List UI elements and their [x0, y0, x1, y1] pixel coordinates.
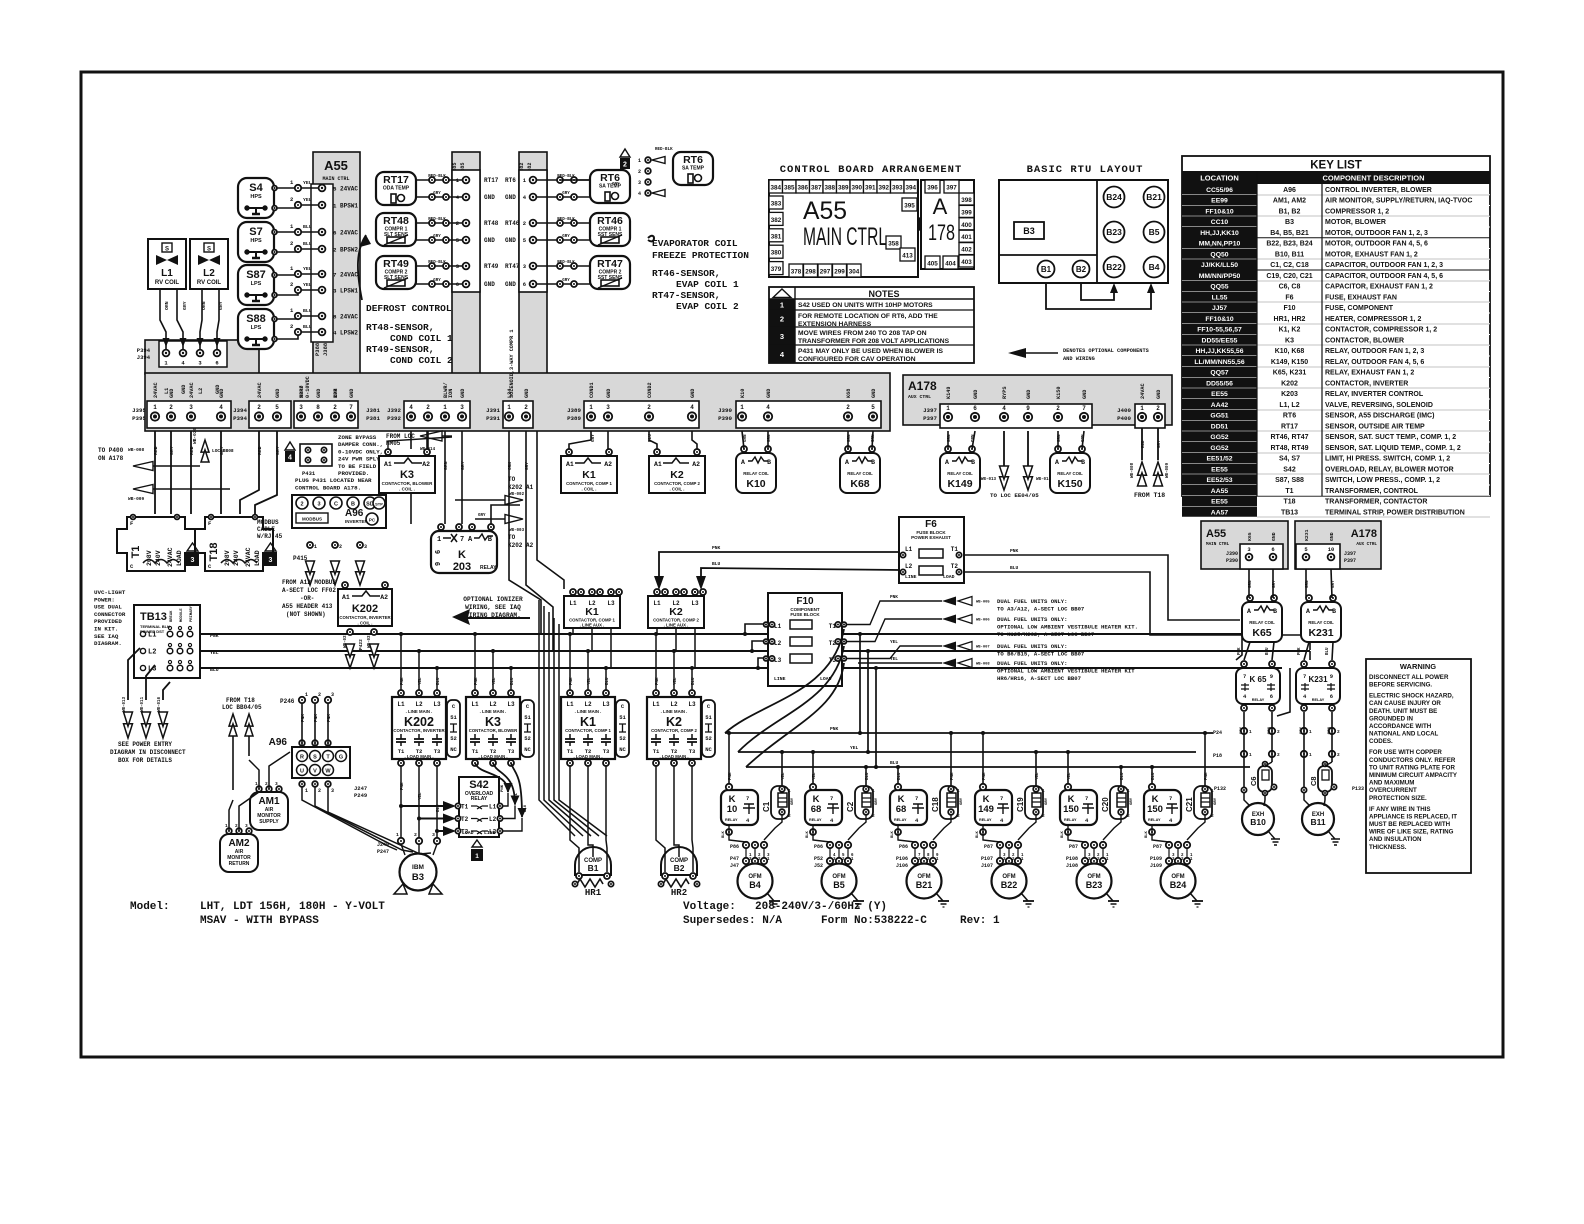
svg-text:GND: GND — [1329, 532, 1335, 541]
svg-text:387: 387 — [811, 185, 822, 192]
svg-text:K231: K231 — [1304, 529, 1310, 541]
svg-text:. COIL .: . COIL . — [670, 487, 685, 492]
svg-text:DISCONNECT ALL POWER: DISCONNECT ALL POWER — [1369, 674, 1449, 681]
svg-text:NC: NC — [524, 746, 531, 753]
svg-text:P86: P86 — [814, 844, 823, 850]
svg-text:B1, B2: B1, B2 — [1279, 208, 1301, 215]
svg-text:2: 2 — [290, 196, 293, 203]
svg-text:SENSOR, SAT. LIQUID TEMP., COM: SENSOR, SAT. LIQUID TEMP., COMP. 1, 2 — [1325, 445, 1461, 452]
svg-text:RED-BLK: RED-BLK — [655, 148, 673, 152]
svg-text:IN KIT.: IN KIT. — [94, 626, 118, 633]
svg-text:402: 402 — [961, 247, 972, 254]
svg-text:1: 1 — [255, 781, 258, 787]
svg-text:L3: L3 — [602, 701, 610, 708]
svg-text:A2: A2 — [604, 461, 612, 468]
svg-text:SA TEMP: SA TEMP — [682, 166, 705, 172]
svg-text:1: 1 — [788, 788, 791, 794]
svg-text:398: 398 — [961, 197, 972, 204]
svg-text:RPM: RPM — [333, 389, 339, 398]
svg-text:ION: ION — [448, 389, 454, 398]
svg-text:P397: P397 — [923, 415, 937, 422]
svg-text:380: 380 — [771, 250, 782, 257]
svg-text:C2: C2 — [846, 801, 855, 812]
svg-text:B4: B4 — [1149, 262, 1160, 272]
svg-text:LPS: LPS — [251, 325, 262, 331]
svg-text:. LINE MAIN .: . LINE MAIN . — [575, 709, 602, 714]
svg-text:S42: S42 — [1283, 466, 1296, 473]
svg-text:J394: J394 — [137, 354, 151, 361]
svg-text:P431: P431 — [302, 470, 316, 477]
svg-text:2: 2 — [1337, 752, 1340, 758]
svg-text:LOAD: LOAD — [462, 830, 474, 836]
svg-text:L2: L2 — [198, 388, 204, 394]
svg-text:1: 1 — [1042, 788, 1045, 794]
svg-text:POWER:: POWER: — [94, 596, 115, 603]
svg-text:2: 2 — [318, 788, 321, 794]
svg-text:LPSW1: LPSW1 — [340, 288, 358, 295]
svg-text:C1: C1 — [762, 801, 771, 812]
svg-text:FOR REMOTE LOCATION OF RT6, AD: FOR REMOTE LOCATION OF RT6, ADD THE — [798, 313, 938, 320]
svg-text:RELAY: RELAY — [725, 818, 738, 822]
svg-text:DUAL FUEL UNITS ONLY:: DUAL FUEL UNITS ONLY: — [997, 598, 1068, 605]
svg-text:W: W — [325, 769, 331, 775]
svg-text:24V PWR SPLY: 24V PWR SPLY — [338, 456, 380, 463]
svg-text:YEL: YEL — [493, 677, 497, 685]
svg-text:378: 378 — [791, 269, 802, 276]
svg-text:10: 10 — [727, 804, 738, 815]
svg-text:304: 304 — [849, 269, 860, 276]
svg-text:383: 383 — [771, 201, 782, 208]
svg-text:RT48: RT48 — [383, 215, 409, 227]
svg-text:F: F — [130, 520, 133, 527]
svg-text:RT47-SENSOR,: RT47-SENSOR, — [652, 290, 720, 301]
svg-text:51: 51 — [619, 714, 626, 721]
svg-text:COMPRESSOR 1, 2: COMPRESSOR 1, 2 — [1325, 208, 1389, 215]
svg-text:WB-002: WB-002 — [509, 493, 525, 497]
svg-text:5: 5 — [871, 404, 875, 411]
svg-text:WB-008: WB-008 — [128, 447, 145, 453]
svg-text:K149: K149 — [947, 478, 972, 490]
svg-text:B2: B2 — [674, 863, 685, 873]
svg-text:L2: L2 — [670, 701, 678, 708]
svg-text:GND: GND — [871, 389, 877, 398]
svg-text:1: 1 — [1249, 752, 1252, 758]
svg-text:T2: T2 — [951, 563, 959, 570]
svg-text:7: 7 — [915, 795, 918, 802]
svg-text:1: 1 — [780, 301, 784, 310]
svg-text:RT6: RT6 — [505, 177, 516, 184]
svg-text:3: 3 — [364, 544, 367, 550]
svg-text:2: 2 — [414, 832, 417, 838]
svg-text:7: 7 — [1085, 795, 1088, 802]
svg-text:S: S — [165, 247, 169, 253]
svg-text:L2: L2 — [489, 701, 497, 708]
svg-text:RELAY: RELAY — [809, 818, 822, 822]
svg-text:BLU: BLU — [210, 667, 219, 673]
svg-text:. LINE AUX .: . LINE AUX . — [580, 623, 605, 628]
svg-text:RELAY COIL: RELAY COIL — [1308, 620, 1334, 625]
svg-text:PNK: PNK — [314, 714, 319, 722]
svg-text:L1: L1 — [489, 804, 497, 811]
svg-text:3: 3 — [331, 788, 334, 794]
svg-text:GND: GND — [484, 237, 495, 244]
svg-text:HH,JJ,KK55,56: HH,JJ,KK55,56 — [1196, 348, 1244, 355]
svg-text:WB-013: WB-013 — [981, 478, 997, 482]
svg-text:C19, C20, C21: C19, C20, C21 — [1266, 273, 1312, 280]
svg-text:B: B — [1081, 459, 1085, 466]
svg-text:L1: L1 — [652, 701, 660, 708]
svg-text:P106: P106 — [896, 856, 908, 862]
svg-text:EVAPORATOR COIL: EVAPORATOR COIL — [652, 238, 738, 249]
svg-text:YEL: YEL — [850, 745, 859, 751]
svg-text:WB-032: WB-032 — [368, 632, 372, 648]
svg-text:3: 3 — [275, 781, 278, 787]
svg-text:3: 3 — [331, 692, 334, 698]
svg-text:A-SECT LOC FF02: A-SECT LOC FF02 — [282, 587, 336, 594]
svg-text:51: 51 — [705, 714, 712, 721]
svg-text:B21: B21 — [1146, 192, 1162, 202]
svg-text:MAIN CTRL: MAIN CTRL — [803, 223, 887, 251]
svg-text:TO UNIT RATING PLATE FOR: TO UNIT RATING PLATE FOR — [1369, 764, 1455, 771]
svg-text:T3: T3 — [603, 748, 610, 755]
svg-text:GND: GND — [275, 389, 281, 398]
svg-text:RT49: RT49 — [484, 263, 499, 270]
svg-text:ACCORDANCE WITH: ACCORDANCE WITH — [1369, 723, 1432, 730]
svg-text:. COIL .: . COIL . — [399, 487, 415, 492]
svg-text:C18: C18 — [931, 797, 940, 812]
svg-text:PROVIDED: PROVIDED — [94, 618, 122, 625]
svg-text:PNK: PNK — [830, 726, 839, 732]
svg-text:J381: J381 — [366, 407, 380, 414]
svg-text:1: 1 — [305, 788, 308, 794]
svg-text:240V: 240V — [155, 550, 162, 566]
svg-text:GND: GND — [690, 389, 696, 398]
svg-text:RT46, RT47: RT46, RT47 — [1270, 434, 1308, 441]
svg-text:RED-BLK: RED-BLK — [428, 261, 446, 265]
svg-text:TO B6/B15, A-SECT LOC BB07: TO B6/B15, A-SECT LOC BB07 — [997, 650, 1084, 657]
svg-text:ORN: ORN — [1328, 726, 1332, 734]
svg-text:J394: J394 — [233, 407, 247, 414]
svg-text:2: 2 — [846, 404, 850, 411]
svg-text:L1: L1 — [905, 546, 913, 553]
svg-text:BLK: BLK — [1145, 830, 1149, 838]
svg-text:24VAC: 24VAC — [245, 547, 252, 567]
svg-text:YEL: YEL — [1036, 772, 1040, 780]
svg-text:K1: K1 — [582, 469, 596, 481]
svg-text:TO LOC EE04/05: TO LOC EE04/05 — [990, 492, 1039, 499]
svg-text:GRY: GRY — [562, 192, 570, 196]
svg-text:405: 405 — [927, 261, 938, 268]
svg-text:L3: L3 — [688, 701, 696, 708]
svg-text:MAIN CTRL: MAIN CTRL — [322, 176, 349, 182]
svg-text:392: 392 — [878, 185, 889, 192]
svg-text:24VAC: 24VAC — [257, 382, 263, 398]
svg-text:4: 4 — [690, 404, 694, 411]
svg-text:7: 7 — [1000, 795, 1003, 802]
svg-text:GRN: GRN — [768, 434, 772, 442]
svg-text:WB-008: WB-008 — [976, 663, 990, 667]
svg-text:MAIN CTRL: MAIN CTRL — [1206, 542, 1230, 547]
svg-text:CAPACITOR, EXHAUST FAN 1, 2: CAPACITOR, EXHAUST FAN 1, 2 — [1325, 284, 1433, 291]
svg-text:GRN: GRN — [1249, 580, 1253, 588]
svg-text:9: 9 — [1330, 673, 1333, 680]
svg-text:L1: L1 — [653, 600, 661, 607]
svg-text:CONTROL BOARD ARRANGEMENT: CONTROL BOARD ARRANGEMENT — [780, 164, 963, 176]
svg-text:A2: A2 — [692, 461, 700, 468]
svg-text:STP: STP — [375, 502, 383, 507]
svg-text:DD55/56: DD55/56 — [1206, 380, 1233, 387]
svg-text:10: 10 — [1328, 546, 1335, 553]
svg-text:A: A — [1306, 608, 1310, 615]
svg-text:K65: K65 — [1247, 532, 1253, 541]
svg-text:BLU: BLU — [712, 561, 721, 567]
svg-text:LPS: LPS — [251, 281, 262, 287]
svg-text:1: 1 — [396, 832, 399, 838]
svg-text:K10: K10 — [740, 389, 746, 398]
svg-text:BLU: BLU — [1152, 772, 1156, 780]
svg-text:RELAY: RELAY — [979, 818, 992, 822]
svg-text:P18: P18 — [1213, 753, 1222, 759]
svg-text:GRY: GRY — [875, 797, 879, 805]
svg-text:DD51: DD51 — [1211, 423, 1229, 430]
svg-text:J395: J395 — [132, 407, 146, 414]
svg-text:LOAD: LOAD — [176, 550, 183, 566]
svg-text:149: 149 — [978, 804, 994, 815]
svg-text:A: A — [741, 459, 745, 466]
svg-text:LOCATION: LOCATION — [1200, 174, 1239, 183]
svg-text:FOR USE WITH COPPER: FOR USE WITH COPPER — [1369, 749, 1442, 756]
svg-text:382: 382 — [771, 217, 782, 224]
svg-text:CC10: CC10 — [1211, 219, 1229, 226]
svg-text:Model:: Model: — [130, 901, 170, 913]
svg-text:F: F — [208, 520, 211, 527]
svg-text:PNK: PNK — [210, 633, 219, 639]
svg-text:CONTACTOR, COMP 1: CONTACTOR, COMP 1 — [566, 481, 612, 486]
svg-text:J389: J389 — [567, 407, 581, 414]
svg-text:CONTACTOR, INVERTER: CONTACTOR, INVERTER — [1325, 380, 1408, 387]
svg-text:L3: L3 — [607, 600, 615, 607]
svg-text:G: G — [339, 755, 343, 761]
svg-text:YEL: YEL — [419, 677, 423, 685]
svg-text:RT49: RT49 — [383, 258, 409, 270]
svg-text:PNK: PNK — [951, 772, 955, 780]
svg-text:P394: P394 — [233, 415, 247, 422]
svg-text:3: 3 — [638, 180, 641, 186]
svg-text:. LOAD MAIN .: . LOAD MAIN . — [659, 754, 688, 759]
svg-text:1: 1 — [443, 404, 447, 411]
svg-text:PLUG P431 LOCATED NEAR: PLUG P431 LOCATED NEAR — [295, 477, 372, 484]
svg-text:APPLIANCE IS REPLACED, IT: APPLIANCE IS REPLACED, IT — [1369, 813, 1457, 820]
svg-text:1: 1 — [225, 823, 228, 829]
svg-text:1: 1 — [1140, 405, 1144, 412]
svg-text:P389: P389 — [567, 415, 581, 422]
svg-text:1: 1 — [1249, 729, 1252, 735]
svg-text:YEL: YEL — [890, 640, 898, 645]
svg-text:150: 150 — [1063, 804, 1079, 815]
svg-text:BEFORE SERVICING.: BEFORE SERVICING. — [1369, 682, 1432, 689]
svg-text:BLU: BLU — [303, 324, 312, 330]
svg-text:GRN: GRN — [443, 461, 449, 470]
svg-text:6: 6 — [523, 281, 526, 288]
svg-text:IF ANY WIRE IN THIS: IF ANY WIRE IN THIS — [1369, 806, 1431, 813]
svg-text:3: 3 — [317, 502, 320, 508]
svg-text:5: 5 — [333, 186, 337, 193]
svg-text:68: 68 — [896, 804, 907, 815]
svg-text:LINE: LINE — [905, 574, 917, 580]
svg-text:P247: P247 — [377, 849, 389, 855]
svg-text:GND: GND — [973, 390, 979, 399]
svg-text:B2: B2 — [1076, 265, 1087, 274]
svg-text:3: 3 — [606, 404, 610, 411]
svg-text:CAPACITOR, OUTDOOR FAN 1, 2, 3: CAPACITOR, OUTDOOR FAN 1, 2, 3 — [1325, 262, 1443, 269]
svg-text:24VAC: 24VAC — [340, 230, 358, 237]
svg-text:7: 7 — [333, 272, 337, 279]
svg-text:FROM T18: FROM T18 — [1134, 492, 1165, 499]
svg-text:2: 2 — [1277, 752, 1280, 758]
svg-text:GRN: GRN — [872, 434, 876, 442]
svg-text:COND2: COND2 — [647, 382, 653, 398]
svg-text:. LINE MAIN .: . LINE MAIN . — [661, 709, 688, 714]
svg-text:2: 2 — [300, 502, 303, 508]
svg-text:1: 1 — [314, 544, 317, 550]
svg-text:DENOTES OPTIONAL COMPONENTS: DENOTES OPTIONAL COMPONENTS — [1063, 348, 1150, 354]
svg-text:TB13: TB13 — [1281, 509, 1298, 516]
svg-text:MODBUS: MODBUS — [257, 519, 279, 526]
svg-text:6: 6 — [973, 405, 977, 412]
svg-text:. LINE AUX .: . LINE AUX . — [664, 623, 689, 628]
svg-text:AM2: AM2 — [228, 838, 250, 849]
svg-text:3: 3 — [269, 557, 273, 564]
svg-text:Form No:: Form No: — [821, 915, 874, 927]
svg-text:L1: L1 — [397, 701, 405, 708]
svg-text:EE55: EE55 — [1211, 499, 1228, 506]
svg-text:2: 2 — [257, 404, 261, 411]
svg-text:1: 1 — [1309, 729, 1312, 735]
svg-text:J390: J390 — [1226, 551, 1238, 557]
svg-text:LL55: LL55 — [1212, 294, 1228, 301]
svg-text:YEL: YEL — [210, 650, 219, 656]
svg-text:WIRE OF LIKE SIZE, RATING: WIRE OF LIKE SIZE, RATING — [1369, 829, 1454, 836]
svg-text:MINIMUM CIRCUIT AMPACITY: MINIMUM CIRCUIT AMPACITY — [1369, 772, 1458, 779]
svg-text:C: C — [334, 502, 338, 508]
svg-text:MUST BE REPLACED WITH: MUST BE REPLACED WITH — [1369, 821, 1451, 828]
svg-text:GRY: GRY — [275, 446, 281, 455]
svg-text:SENSOR, OUTSIDE AIR TEMP: SENSOR, OUTSIDE AIR TEMP — [1325, 423, 1425, 430]
svg-text:RELAY: RELAY — [1252, 698, 1265, 702]
svg-text:399: 399 — [961, 209, 972, 216]
svg-text:CONTACTOR, COMPRESSOR 1, 2: CONTACTOR, COMPRESSOR 1, 2 — [1325, 327, 1437, 334]
svg-text:S87, S88: S87, S88 — [1275, 477, 1304, 484]
svg-text:RED-BLK: RED-BLK — [557, 175, 575, 179]
svg-text:7: 7 — [460, 536, 464, 544]
svg-text:SEE POWER ENTRY: SEE POWER ENTRY — [118, 741, 172, 748]
svg-text:FF10&10: FF10&10 — [1205, 208, 1234, 215]
svg-text:B: B — [971, 459, 975, 466]
svg-text:BLK: BLK — [1061, 830, 1065, 838]
svg-text:DUAL FUEL UNITS ONLY:: DUAL FUEL UNITS ONLY: — [997, 660, 1068, 667]
svg-text:RELAY: RELAY — [1148, 818, 1161, 822]
svg-text:RT17: RT17 — [383, 174, 409, 186]
svg-text:LINE: LINE — [774, 676, 786, 682]
svg-text:GRY: GRY — [960, 797, 964, 805]
svg-text:NC: NC — [619, 746, 626, 753]
svg-text:208V: 208V — [146, 550, 153, 566]
svg-text:24VAC: 24VAC — [340, 186, 358, 193]
svg-text:L1: L1 — [566, 701, 574, 708]
svg-text:T18: T18 — [208, 543, 220, 562]
svg-text:1: 1 — [589, 404, 593, 411]
svg-text:B5: B5 — [1149, 227, 1160, 237]
svg-text:K203: K203 — [1281, 391, 1298, 398]
svg-text:GND: GND — [524, 389, 530, 398]
svg-text:CONTROL BOARD A178.: CONTROL BOARD A178. — [295, 485, 361, 492]
svg-text:PNK: PNK — [401, 782, 405, 790]
svg-text:FUSE BLOCK: FUSE BLOCK — [790, 612, 820, 617]
svg-text:RT47: RT47 — [505, 263, 520, 270]
svg-text:BLU: BLU — [692, 677, 696, 685]
svg-text:BLU: BLU — [303, 241, 312, 247]
svg-text:CONTACTOR, BLOWER: CONTACTOR, BLOWER — [469, 728, 518, 733]
svg-text:R: R — [300, 755, 304, 761]
svg-text:P431 MAY ONLY BE USED WHEN BLO: P431 MAY ONLY BE USED WHEN BLOWER IS — [798, 348, 943, 355]
svg-text:394: 394 — [905, 185, 916, 192]
svg-text:IBM: IBM — [412, 864, 424, 871]
svg-text:COND COIL 2: COND COIL 2 — [390, 355, 453, 366]
svg-text:B3: B3 — [1023, 226, 1035, 236]
svg-text:A55 HEADER 413: A55 HEADER 413 — [282, 603, 333, 610]
svg-text:1: 1 — [333, 203, 337, 210]
svg-text:PNK: PNK — [656, 677, 660, 685]
svg-text:GND: GND — [316, 389, 322, 398]
svg-text:GND: GND — [505, 237, 516, 244]
svg-text:J390: J390 — [718, 407, 732, 414]
svg-text:WB-014: WB-014 — [1036, 478, 1052, 482]
svg-text:. LOAD MAIN .: . LOAD MAIN . — [404, 754, 433, 759]
svg-text:GRY: GRY — [591, 434, 596, 442]
svg-text:QQ50: QQ50 — [1210, 251, 1228, 258]
svg-text:INVERTER: INVERTER — [345, 519, 369, 524]
svg-text:AIR MONITOR, SUPPLY/RETURN, IA: AIR MONITOR, SUPPLY/RETURN, IAQ-TVOC — [1325, 198, 1472, 205]
svg-text:WB-009: WB-009 — [128, 496, 145, 502]
svg-text:AND MAXIMUM: AND MAXIMUM — [1369, 780, 1414, 787]
svg-text:K2: K2 — [666, 715, 682, 729]
svg-text:WARNING: WARNING — [1400, 662, 1436, 671]
svg-text:T1: T1 — [1285, 488, 1293, 495]
svg-text:DIAGRAM IN DISCONNECT: DIAGRAM IN DISCONNECT — [110, 749, 186, 756]
svg-text:2: 2 — [523, 220, 526, 227]
svg-text:C21: C21 — [1185, 797, 1194, 812]
svg-text:Supersedes: N/A: Supersedes: N/A — [683, 915, 782, 927]
svg-text:RT46: RT46 — [597, 215, 623, 227]
svg-text:B4: B4 — [749, 880, 761, 890]
svg-text:208V: 208V — [224, 550, 231, 566]
svg-text:381: 381 — [771, 233, 782, 240]
svg-text:GRY: GRY — [433, 279, 441, 283]
svg-text:SWITCH, LOW PRESS., COMP. 1, 2: SWITCH, LOW PRESS., COMP. 1, 2 — [1325, 477, 1440, 484]
svg-text:HEATER, COMPRESSOR 1, 2: HEATER, COMPRESSOR 1, 2 — [1325, 316, 1421, 323]
svg-text:FREEZE PROTECTION: FREEZE PROTECTION — [652, 250, 749, 261]
svg-text:2: 2 — [872, 813, 875, 819]
svg-text:ORN: ORN — [164, 301, 170, 310]
svg-text:HPS: HPS — [250, 194, 262, 200]
svg-text:UVC-LIGHT: UVC-LIGHT — [94, 589, 126, 596]
svg-text:P132: P132 — [1214, 786, 1226, 792]
svg-text:BPSW1: BPSW1 — [340, 203, 358, 210]
svg-text:DUAL FUEL UNITS ONLY:: DUAL FUEL UNITS ONLY: — [997, 616, 1068, 623]
svg-text:JJ57: JJ57 — [1212, 305, 1227, 312]
svg-text:TO BE FIELD: TO BE FIELD — [338, 463, 377, 470]
svg-text:JJ/KK/LL50: JJ/KK/LL50 — [1201, 262, 1238, 269]
